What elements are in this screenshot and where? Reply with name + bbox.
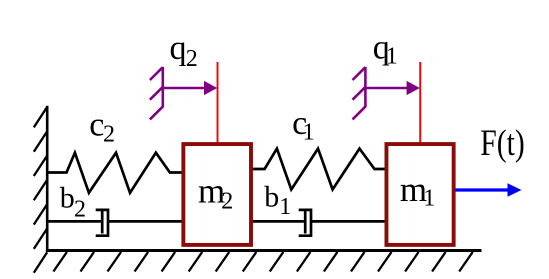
svg-text:q2: q2 <box>170 30 198 72</box>
svg-text:c2: c2 <box>89 107 115 148</box>
svg-text:b1: b1 <box>264 180 291 220</box>
svg-text:c1: c1 <box>292 105 314 146</box>
svg-text:b2: b2 <box>60 182 86 223</box>
svg-text:F(t): F(t) <box>480 122 525 163</box>
svg-text:q1: q1 <box>373 30 398 70</box>
